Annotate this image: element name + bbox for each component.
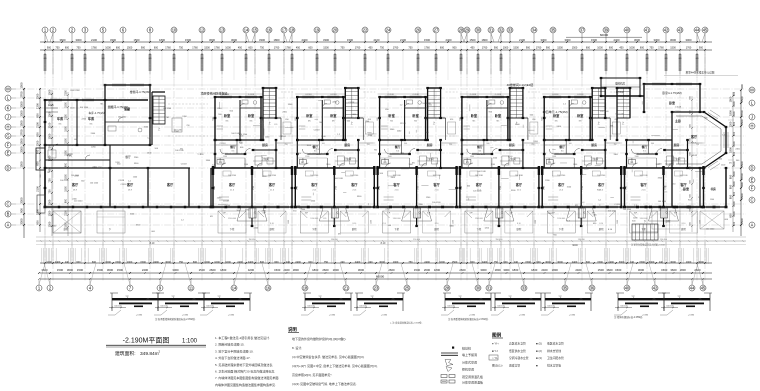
svg-text:1:100: 1:100 [182, 339, 198, 345]
svg-text:3600: 3600 [41, 268, 48, 272]
svg-text:3000: 3000 [545, 261, 551, 264]
svg-text:K: K [7, 105, 10, 110]
svg-text:1000: 1000 [105, 47, 111, 50]
svg-text:C-1518: C-1518 [330, 94, 336, 96]
svg-text:C-1518: C-1518 [387, 94, 393, 96]
svg-text:2400: 2400 [575, 268, 582, 272]
svg-text:1500: 1500 [65, 138, 68, 144]
svg-text:餐厅: 餐厅 [125, 155, 131, 159]
svg-text:1000: 1000 [225, 47, 231, 50]
svg-text:8.6: 8.6 [479, 151, 482, 153]
svg-text:客厅: 客厅 [310, 182, 318, 187]
svg-text:T.P: T.P [171, 296, 175, 298]
svg-text:1500: 1500 [452, 261, 458, 264]
svg-text:空调冷凝水立管: 空调冷凝水立管 [509, 356, 529, 360]
svg-text:1800: 1800 [552, 268, 559, 272]
svg-text:1500: 1500 [552, 156, 556, 158]
svg-text:1500: 1500 [347, 38, 353, 42]
svg-text:450: 450 [296, 47, 301, 50]
svg-text:1200 600: 1200 600 [557, 218, 565, 220]
svg-text:8.6: 8.6 [232, 151, 235, 153]
svg-text:900: 900 [47, 47, 52, 50]
svg-text:45: 45 [703, 27, 708, 32]
svg-text:卫生间: 卫生间 [343, 157, 351, 161]
svg-text:3300: 3300 [323, 38, 329, 42]
svg-text:2400: 2400 [302, 38, 308, 42]
svg-text:32: 32 [499, 27, 504, 32]
svg-text:1800: 1800 [274, 38, 280, 42]
svg-text:客厅: 客厅 [690, 134, 698, 139]
svg-text:1500: 1500 [323, 47, 329, 50]
svg-text:厨房: 厨房 [674, 142, 680, 147]
svg-text:3000: 3000 [165, 261, 171, 264]
svg-text:低区供水立管: 低区供水立管 [509, 349, 526, 353]
svg-text:柜机空调: 柜机空调 [462, 367, 474, 372]
svg-text:100 100: 100 100 [359, 305, 367, 307]
svg-text:墙上予留洞: 墙上予留洞 [462, 352, 477, 357]
svg-text:1500: 1500 [740, 218, 744, 225]
svg-text:1500: 1500 [639, 261, 645, 264]
svg-text:客厅: 客厅 [597, 182, 605, 187]
svg-text:44: 44 [690, 285, 695, 290]
svg-text:120 1240: 120 1240 [90, 183, 99, 185]
svg-text:1800: 1800 [729, 147, 733, 153]
svg-text:餐厅: 餐厅 [641, 144, 648, 149]
svg-text:3300: 3300 [19, 146, 23, 153]
svg-text:1000: 1000 [127, 261, 133, 264]
svg-text:3000: 3000 [480, 268, 487, 272]
svg-text:100 1240: 100 1240 [432, 202, 441, 204]
svg-text:1200: 1200 [733, 171, 736, 177]
svg-text:1500: 1500 [199, 268, 206, 272]
svg-text:2400: 2400 [295, 261, 301, 264]
svg-text:4800 4300: 4800 4300 [70, 90, 80, 92]
svg-text:750: 750 [76, 47, 81, 50]
svg-text:250: 250 [614, 144, 617, 146]
svg-text:T.P: T.P [677, 296, 681, 298]
svg-text:2600: 2600 [322, 268, 329, 272]
svg-text:2100: 2100 [65, 90, 68, 96]
svg-text:(4) 中空玻璃窗台扶手, 做法见参表, 见中心截面图[7]: (4) 中空玻璃窗台扶手, 做法见参表, 见中心截面图[7][3]. [292, 354, 365, 359]
svg-text:C1518: C1518 [348, 102, 355, 104]
svg-text:2100: 2100 [65, 210, 68, 216]
svg-text:100 100: 100 100 [160, 305, 168, 307]
svg-text:-2.05M: -2.05M [136, 315, 143, 317]
svg-text:(4)(3) 见图中空玻璃窗气候, 地参上下做法参见表.: (4)(3) 见图中空玻璃窗气候, 地参上下做法参见表. [292, 381, 357, 386]
svg-text:900: 900 [546, 47, 551, 50]
svg-text:1200: 1200 [733, 111, 736, 117]
svg-text:-2.05M: -2.05M [688, 315, 695, 317]
svg-text:T.P: T.P [427, 213, 431, 215]
svg-text:42: 42 [664, 27, 669, 32]
svg-text:100 1240: 100 1240 [67, 145, 76, 147]
svg-text:600: 600 [274, 261, 279, 264]
svg-text:1760: 1760 [355, 47, 361, 50]
svg-text:18: 18 [303, 285, 308, 290]
svg-text:2400: 2400 [541, 268, 548, 272]
svg-text:600: 600 [440, 47, 445, 50]
svg-text:客厅: 客厅 [126, 182, 134, 187]
svg-text:1200: 1200 [729, 121, 733, 127]
svg-text:1500: 1500 [424, 38, 430, 42]
svg-text:电梯机房: 电梯机房 [615, 82, 626, 86]
svg-text:3000: 3000 [619, 261, 625, 264]
svg-text:450: 450 [238, 47, 243, 50]
svg-text:750: 750 [260, 47, 265, 50]
svg-text:车库-4.75(2M): 车库-4.75(2M) [88, 111, 105, 115]
svg-text:T.P: T.P [125, 296, 129, 298]
svg-text:1800: 1800 [729, 110, 733, 116]
svg-text:厨房: 厨房 [344, 142, 350, 147]
svg-text:1500: 1500 [453, 220, 455, 224]
svg-text:客厅: 客厅 [557, 182, 565, 187]
svg-text:6. 卫生间地面 相对降片30 标高内做法降标高.: 6. 卫生间地面 相对降片30 标高内做法降标高. [215, 369, 275, 374]
svg-text:1000: 1000 [629, 47, 635, 50]
svg-text:卫生间: 卫生间 [261, 157, 269, 161]
svg-text:储藏间-4.75(2M): 储藏间-4.75(2M) [108, 105, 129, 109]
svg-text:20: 20 [333, 27, 338, 32]
svg-text:2600: 2600 [694, 268, 701, 272]
svg-text:上: 上 [597, 121, 600, 125]
svg-text:2700: 2700 [543, 186, 545, 190]
svg-text:1800: 1800 [729, 96, 733, 102]
svg-text:8.6: 8.6 [396, 151, 399, 153]
svg-text:3300: 3300 [19, 218, 23, 225]
svg-text:C-1518: C-1518 [412, 94, 418, 96]
svg-text:10: 10 [172, 27, 177, 32]
svg-text:C1518: C1518 [220, 143, 227, 145]
svg-text:1500: 1500 [388, 156, 392, 158]
svg-text:2700: 2700 [253, 186, 255, 190]
svg-text:3600: 3600 [670, 268, 677, 272]
svg-text:C: C [751, 197, 754, 202]
svg-text:900: 900 [404, 143, 407, 145]
svg-text:43: 43 [678, 27, 683, 32]
svg-text:30: 30 [476, 27, 481, 32]
svg-text:1500: 1500 [470, 38, 476, 42]
svg-text:22: 22 [363, 27, 368, 32]
svg-text:750: 750 [48, 178, 52, 183]
svg-text:卧室: 卧室 [495, 113, 502, 118]
svg-text:3000: 3000 [686, 38, 692, 42]
svg-text:3600: 3600 [60, 38, 66, 42]
svg-text:750: 750 [380, 47, 385, 50]
svg-text:40: 40 [625, 285, 630, 290]
svg-text:600: 600 [733, 191, 736, 196]
svg-text:2700: 2700 [461, 186, 463, 190]
svg-text:E(XD)F: E(XD)F [616, 91, 625, 94]
svg-text:1000: 1000 [214, 261, 220, 264]
svg-text:卫生间: 卫生间 [426, 157, 434, 161]
svg-text:8.10: 8.10 [270, 223, 274, 225]
svg-text:1500: 1500 [572, 47, 578, 50]
svg-text:-2.05M: -2.05M [569, 315, 576, 317]
svg-text:600: 600 [729, 213, 733, 218]
svg-text:750: 750 [179, 261, 184, 264]
svg-text:1000: 1000 [393, 261, 399, 264]
svg-text:100 1240: 100 1240 [477, 171, 486, 173]
svg-text:100 1240: 100 1240 [118, 116, 127, 118]
svg-text:100 1240: 100 1240 [608, 210, 617, 212]
svg-text:2400: 2400 [248, 261, 254, 264]
svg-text:客厅: 客厅 [71, 182, 79, 187]
svg-text:7. 内墙体详图见本图集图集构造做法详图见参图.: 7. 内墙体详图见本图集图集构造做法详图见参图. [215, 375, 279, 380]
svg-text:3300: 3300 [541, 38, 547, 42]
svg-text:100 1240: 100 1240 [163, 108, 172, 110]
svg-text:1760: 1760 [165, 47, 171, 50]
svg-text:1000: 1000 [439, 261, 445, 264]
svg-text:29: 29 [465, 27, 470, 32]
svg-text:1500: 1500 [661, 268, 668, 272]
svg-text:1500: 1500 [223, 156, 227, 158]
svg-text:600: 600 [193, 261, 198, 264]
svg-text:A: A [7, 222, 10, 227]
svg-text:下辈: 下辈 [312, 227, 317, 231]
svg-text:600: 600 [116, 47, 121, 50]
svg-text:1500: 1500 [274, 268, 281, 272]
svg-text:3300: 3300 [19, 197, 23, 204]
svg-text:T.P: T.P [508, 296, 512, 298]
svg-text:1160: 1160 [491, 164, 495, 166]
svg-text:11: 11 [189, 285, 194, 290]
svg-text:150 650: 150 650 [495, 239, 502, 241]
svg-text:3000: 3000 [670, 38, 676, 42]
svg-text:39: 39 [604, 27, 609, 32]
svg-text:1200: 1200 [36, 103, 40, 109]
svg-text:1160: 1160 [573, 164, 577, 166]
svg-text:1800: 1800 [482, 38, 488, 42]
svg-text:250: 250 [285, 144, 288, 146]
svg-text:8. 设计,: 8. 设计, [292, 345, 302, 350]
svg-text:1800: 1800 [680, 268, 687, 272]
svg-text:M: M [750, 87, 754, 92]
svg-text:600: 600 [729, 174, 733, 179]
svg-text:1800: 1800 [159, 38, 165, 42]
svg-text:1760: 1760 [686, 47, 692, 50]
svg-text:100 100: 100 100 [307, 305, 315, 307]
svg-text:3000: 3000 [649, 261, 655, 264]
svg-text:3000: 3000 [76, 38, 82, 42]
svg-text:厨房: 厨房 [591, 142, 597, 147]
svg-text:120 1240: 120 1240 [600, 111, 609, 113]
svg-text:3000: 3000 [634, 38, 640, 42]
svg-text:1760: 1760 [424, 47, 430, 50]
svg-text:A: A [751, 222, 754, 227]
svg-text:主卧: 主卧 [675, 118, 681, 123]
svg-text:8.10: 8.10 [435, 223, 439, 225]
svg-text:T.P: T.P [345, 213, 349, 215]
svg-text:700: 700 [186, 125, 189, 127]
svg-text:分体空调测温板: 分体空调测温板 [462, 380, 483, 385]
svg-text:卫生间: 卫生间 [673, 157, 681, 161]
svg-text:庭院: 庭院 [352, 227, 357, 231]
svg-text:3600: 3600 [209, 38, 215, 42]
svg-text:观空调测温孔板: 观空调测温孔板 [462, 374, 483, 379]
svg-text:3000: 3000 [638, 268, 645, 272]
svg-text:厨房: 厨房 [262, 142, 268, 147]
svg-text:2400: 2400 [283, 268, 290, 272]
svg-text:1500: 1500 [204, 47, 210, 50]
svg-text:下辈: 下辈 [477, 227, 482, 231]
svg-text:1200: 1200 [36, 93, 40, 99]
svg-text:2700: 2700 [335, 186, 337, 190]
svg-text:349.84m: 349.84m [140, 351, 159, 357]
svg-text:-2.05M: -2.05M [228, 315, 235, 317]
svg-text:600: 600 [213, 117, 215, 120]
svg-text:600: 600 [733, 151, 736, 156]
svg-text:1500: 1500 [48, 133, 52, 139]
svg-text:600: 600 [640, 47, 645, 50]
svg-text:1200: 1200 [36, 209, 40, 215]
svg-text:120 1240: 120 1240 [615, 114, 624, 116]
svg-text:42: 42 [653, 285, 658, 290]
svg-text:高窗参照[2][3], 见平面图参见*.: 高窗参照[2][3], 见平面图参见*. [292, 372, 333, 377]
svg-text:13: 13 [220, 27, 225, 32]
svg-text:上: 上 [268, 121, 271, 125]
svg-text:1200: 1200 [733, 101, 736, 107]
svg-text:1500: 1500 [615, 268, 622, 272]
svg-text:建筑面积:: 建筑面积: [115, 350, 136, 357]
svg-text:C-1518: C-1518 [305, 94, 311, 96]
svg-text:8.10: 8.10 [682, 223, 686, 225]
svg-text:150 650: 150 650 [413, 239, 420, 241]
svg-text:600: 600 [260, 261, 265, 264]
svg-text:1200 600: 1200 600 [228, 218, 236, 220]
svg-text:3000: 3000 [503, 268, 510, 272]
svg-text:庭院: 庭院 [64, 227, 69, 231]
svg-text:100 1240: 100 1240 [422, 103, 431, 105]
svg-text:2400: 2400 [482, 261, 488, 264]
svg-text:100 1240: 100 1240 [658, 201, 667, 203]
svg-text:600: 600 [308, 47, 313, 50]
svg-text:8.10: 8.10 [517, 223, 521, 225]
svg-text:31: 31 [489, 27, 494, 32]
svg-text:600: 600 [733, 131, 736, 136]
svg-text:240: 240 [340, 261, 345, 264]
svg-text:2400: 2400 [572, 261, 578, 264]
svg-text:4. 外窗下台阶做法详图-17.: 4. 外窗下台阶做法详图-17. [215, 355, 251, 360]
svg-text:600: 600 [76, 261, 81, 264]
svg-text:T.P: T.P [631, 296, 635, 298]
svg-text:客厅: 客厅 [350, 182, 358, 187]
svg-text:1500: 1500 [598, 268, 605, 272]
svg-text:100 1240: 100 1240 [477, 154, 486, 156]
svg-text:H: H [7, 124, 10, 129]
svg-text:900: 900 [19, 208, 23, 213]
svg-text:240: 240 [286, 261, 291, 264]
svg-text:240: 240 [65, 261, 70, 264]
svg-text:车库: 车库 [57, 116, 64, 121]
svg-text:1760: 1760 [393, 47, 399, 50]
svg-text:C-1518: C-1518 [470, 94, 476, 96]
svg-text:1500: 1500 [740, 119, 744, 126]
svg-text:2100: 2100 [65, 114, 68, 120]
svg-text:排水立管等: 排水立管等 [547, 363, 561, 367]
svg-text:-2.05M: -2.05M [329, 315, 336, 317]
svg-text:1500: 1500 [117, 268, 124, 272]
svg-text:C-0915: C-0915 [48, 105, 54, 107]
svg-text:地下室的外窗均做防护窗护[3][,][3][3]做().: 地下室的外窗均做防护窗护[3][,][3][3]做(). [292, 336, 347, 341]
svg-text:3. 地下室分半隔墙见详图-10.: 3. 地下室分半隔墙见详图-10. [215, 348, 254, 353]
svg-text:14: 14 [232, 285, 237, 290]
svg-text:150 650: 150 650 [331, 239, 338, 241]
svg-text:600: 600 [586, 261, 591, 264]
svg-text:2100: 2100 [91, 38, 97, 42]
svg-text:客厅: 客厅 [475, 182, 483, 187]
svg-text:650: 650 [450, 119, 453, 121]
svg-text:240: 240 [630, 261, 635, 264]
svg-text:■ YJ: ■ YJ [492, 349, 498, 353]
svg-text:1160: 1160 [326, 164, 330, 166]
svg-text:100 1240: 100 1240 [623, 209, 632, 211]
svg-text:450: 450 [619, 47, 624, 50]
svg-text:C1518: C1518 [691, 155, 698, 157]
svg-text:上: 上 [351, 121, 354, 125]
svg-text:2700: 2700 [626, 186, 628, 190]
svg-text:600: 600 [729, 184, 733, 189]
svg-text:T.P: T.P [674, 213, 678, 215]
svg-text:卧室: 卧室 [669, 100, 675, 105]
svg-text:3600: 3600 [67, 268, 74, 272]
svg-text:37: 37 [580, 27, 585, 32]
svg-text:卧室: 卧室 [306, 113, 313, 118]
svg-text:1500: 1500 [370, 220, 372, 224]
svg-text:8.10: 8.10 [352, 223, 356, 225]
svg-text:750: 750 [179, 47, 184, 50]
svg-text:1760: 1760 [91, 47, 97, 50]
svg-text:1000: 1000 [597, 47, 603, 50]
svg-text:3000: 3000 [379, 261, 385, 264]
svg-text:8.10: 8.10 [599, 223, 603, 225]
svg-text:1760: 1760 [214, 47, 220, 50]
svg-text:客厅: 客厅 [166, 182, 174, 187]
svg-text:16: 16 [267, 27, 272, 32]
svg-text:书房: 书房 [710, 187, 716, 191]
svg-text:车库: 车库 [88, 116, 95, 121]
svg-text:60000: 60000 [600, 33, 609, 37]
svg-text:900: 900 [141, 47, 146, 50]
svg-text:■ (5): ■ (5) [536, 342, 542, 346]
svg-text:2600: 2600 [424, 268, 431, 272]
svg-text:C: C [7, 201, 10, 206]
svg-text:1200: 1200 [733, 201, 736, 207]
svg-text:750: 750 [408, 261, 413, 264]
svg-text:2400: 2400 [237, 261, 243, 264]
svg-text:1500: 1500 [127, 47, 133, 50]
svg-text:卧室: 卧室 [471, 113, 478, 118]
svg-text:1800: 1800 [531, 268, 538, 272]
svg-text:1500: 1500 [19, 82, 23, 89]
svg-text:高区给水立管: 高区给水立管 [509, 342, 526, 346]
svg-text:2700: 2700 [214, 186, 216, 190]
svg-text:1200: 1200 [733, 181, 736, 187]
svg-text:33: 33 [508, 27, 513, 32]
svg-text:600: 600 [586, 47, 591, 50]
svg-text:900: 900 [494, 47, 499, 50]
svg-text:T.P: T.P [262, 213, 266, 215]
svg-text:28: 28 [445, 285, 450, 290]
svg-text:600: 600 [470, 261, 475, 264]
svg-text:C1518: C1518 [675, 107, 682, 109]
svg-text:2100: 2100 [48, 122, 52, 128]
svg-text:1500: 1500 [740, 96, 744, 103]
svg-text:100 100: 100 100 [666, 305, 674, 307]
svg-text:600: 600 [154, 47, 159, 50]
svg-text:T.P: T.P [222, 213, 226, 215]
svg-text:35: 35 [563, 285, 568, 290]
svg-text:3300: 3300 [259, 38, 265, 42]
svg-text:图例: 图例 [492, 332, 502, 339]
